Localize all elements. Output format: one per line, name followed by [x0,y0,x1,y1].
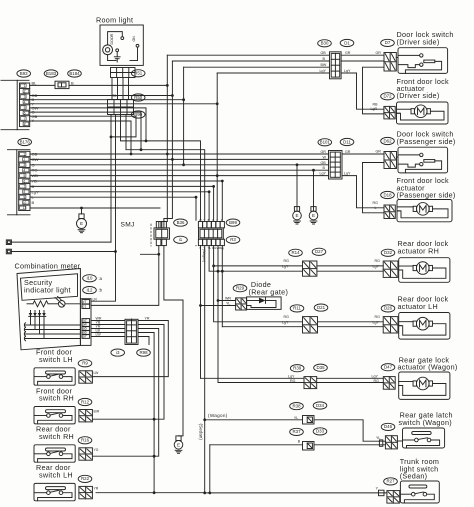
svg-text:RG: RG [374,379,380,383]
connector label D7 [381,39,395,46]
svg-text:LgY: LgY [320,69,327,73]
junction w6 [221,180,224,183]
wire LgY R11 to D26 [318,326,384,328]
svg-text:switch (Wagon): switch (Wagon) [399,418,452,427]
svg-text:R29: R29 [236,286,245,291]
svg-text:GR: GR [345,150,351,154]
connector label D62 [381,137,395,144]
connector label R22 [78,475,92,482]
connector R22 [79,486,93,498]
meter internal diodes [29,311,46,339]
wire LgY to rear RH R14 lower [209,246,302,272]
svg-text:R11: R11 [293,306,301,311]
wire R98 to front door switch RH R12 [93,325,165,420]
connector label D1 [340,39,354,46]
svg-text:(Wagon): (Wagon) [208,413,228,418]
connector label D32 [381,249,395,256]
svg-text:D35: D35 [316,365,325,370]
svg-text:GR: GR [376,150,382,154]
wire LR down to combination meter c7 [91,252,115,302]
connector label R3 [226,236,240,243]
svg-text:RG: RG [375,315,381,319]
svg-text:R38: R38 [292,403,301,408]
svg-text:5: 5 [23,174,25,178]
left edge connector b [6,249,11,254]
wire LgY R14 to D32 [317,270,383,272]
connector label R37 [290,428,304,435]
svg-text:R14: R14 [291,250,300,255]
switch box R16 [34,445,75,462]
wire GR D11 to D62 [342,153,384,155]
svg-text:WR: WR [225,296,231,300]
connector R39/D35 [304,377,317,389]
connector R3 pin labels [199,246,224,250]
connector label R14 [289,249,303,256]
junction w7 [212,185,215,188]
wire RG to rear gate actuator lower [218,301,304,383]
wire stem ground left [81,208,83,214]
inline marker bottom wire [379,490,385,496]
svg-text:3: 3 [24,95,26,99]
svg-text:RB: RB [112,94,116,98]
connector label i10 [83,275,97,282]
switch box R12 [34,407,75,424]
svg-text:R3: R3 [230,237,236,242]
wire vertical v167 to B36 [159,55,168,228]
wire LW meter to i3/R98 [91,336,125,338]
wire GB B93 p2 to vertical v172 [30,95,173,97]
connector R51 [111,68,136,78]
svg-text:RG: RG [375,259,381,263]
wire L D62 down to D18 [363,163,385,213]
svg-text:(Driver side): (Driver side) [397,91,440,100]
svg-text:D11: D11 [343,139,351,144]
rear gate latch switch box [403,428,445,448]
ground E center 1 [293,207,302,224]
rear gate lock actuator box [399,372,450,399]
svg-text:B: B [208,218,210,222]
wire RG to rear LH R11 [214,246,303,322]
svg-text:B: B [32,200,35,205]
connector R37/D33 [303,442,315,451]
svg-text:B: B [71,80,74,85]
wire RG to rear RH R14 [214,265,303,267]
connector label i3 [111,349,125,356]
svg-text:D47: D47 [384,365,393,370]
svg-text:(Rear gate): (Rear gate) [249,288,289,297]
connector D72 [384,106,395,119]
stub [195,245,197,247]
svg-text:Y: Y [203,218,205,222]
svg-text:LgY: LgY [288,374,295,378]
junction w9 [195,196,198,199]
wire LgY B93 to vertical [30,103,218,105]
wire LB meter to i3/R98 [91,332,125,334]
wire YL R38 to D46 [314,420,385,441]
wire i1 stub left [141,253,159,255]
svg-text:B176: B176 [20,139,31,144]
connector B99/R3 [199,228,224,239]
connector R16 [79,448,93,460]
wire WR R3 down to diode [218,246,236,301]
wire vertical v184 to bus [183,67,185,165]
wire LgY to B30 pin4 [217,72,329,74]
svg-text:i10: i10 [87,276,93,281]
connector label R50 [131,94,145,101]
connector B99 pin labels [199,218,223,222]
front door lock actuator box driver [397,102,449,124]
svg-text:GR: GR [376,51,382,55]
junction [217,270,220,273]
connector R38/D34 [303,416,315,425]
svg-text:D62: D62 [383,138,392,143]
svg-text:(Wagon): (Wagon) [202,249,206,262]
svg-text:DOOR: DOOR [110,33,114,44]
meter internal lamp lines [24,323,80,341]
connector R9 [79,371,93,383]
junction [171,94,174,97]
junction [153,491,156,494]
svg-text:indicator light: indicator light [24,285,71,294]
connector D46 [385,436,397,449]
svg-text:6: 6 [23,179,25,183]
svg-text:D21: D21 [317,305,326,310]
wires room light R51 to R50 [111,78,113,100]
connector label D33 [313,428,327,435]
svg-text:YR: YR [94,487,99,491]
connector label B183 [44,70,58,77]
wire BL B93 pin1 to inline connector [30,84,55,86]
SMJ boundary dashes [150,224,152,246]
wire B R37 to D46 [314,444,385,446]
connector label D47 [381,364,395,371]
wire B i1 down to ground E [164,246,183,436]
wire YL to diode [201,305,236,307]
wire B93 p5 down to bus H1 [30,108,146,141]
svg-text:B99: B99 [229,220,237,225]
svg-text:R98: R98 [139,350,148,355]
wire bottom bus to Sedan vertical [154,492,205,494]
wire B176 p8 to B99 [30,192,209,221]
svg-text:RG: RG [373,201,379,205]
wire LgR D1 down to D72 [341,73,384,109]
svg-text:11: 11 [23,206,27,210]
connector label B101 [318,139,332,146]
connector label R16 [78,437,92,444]
svg-text:D32: D32 [384,250,393,255]
connector D7 [384,53,396,72]
connector label R51 [131,70,145,77]
connector B30/D1 [330,52,342,79]
connector label B36 [174,219,188,226]
svg-text:BL: BL [32,80,38,85]
svg-text:D1: D1 [344,40,350,45]
connector R50/B90 [108,100,134,115]
wire bus B176 p2 to B101 [30,158,329,160]
wire D62 to switch box [397,156,399,158]
connector label R11 [290,305,304,312]
wire LW R98 to front door switch LH R9 [93,321,169,377]
junction [203,492,206,495]
svg-text:LgY: LgY [282,321,289,325]
wire D46 to latch switch box [397,440,402,442]
junction [110,136,113,139]
wire to B30 pin1 [167,54,329,56]
svg-text:switch LH: switch LH [39,355,73,364]
svg-text:W: W [199,218,202,222]
connector B93 pins [20,83,30,127]
rear door lock actuator LH box [399,313,450,340]
wire RG R11 to D26 [318,321,384,323]
svg-text:YL: YL [226,302,230,306]
wire B bus B176 p4 to B101 [30,169,329,171]
wire LgY bus B176 p5 to B101 [30,175,329,177]
svg-text:L: L [375,206,377,210]
junction [153,418,156,421]
wire R98 to rear door switch LH R22 and trunk [96,333,154,493]
rear door lock actuator RH box [399,258,450,283]
svg-text:7: 7 [23,185,25,189]
switch box R9 [34,368,75,385]
connector label R39 [290,365,304,372]
junction [153,455,156,458]
svg-text:RG: RG [284,315,290,319]
connector label D34 [313,402,327,409]
connector D18 [384,205,395,219]
svg-text:R37: R37 [292,429,301,434]
connector label R12 [78,398,92,405]
connector label D21 [314,304,328,311]
connector label D72 [381,93,395,100]
svg-text:1: 1 [24,84,26,88]
connector B176 pins [19,151,30,210]
wire YL Wagon to R38/D34 [205,419,303,421]
junction [221,270,224,273]
wire D7 to switch box [396,57,398,59]
junction [203,418,206,421]
trunk room light switch box [400,481,439,503]
connector strip cells [80,299,91,346]
svg-text:LgY: LgY [320,172,327,176]
junction [212,265,215,268]
wire joint [221,326,223,328]
diode box [247,297,282,310]
connector B93 bracket [1,80,29,129]
junction [166,84,169,87]
wire RG D11 down to D18 [342,176,384,208]
junction w8 [208,190,211,193]
wire WR meter to i3/R98 [91,320,125,322]
svg-text:BrR: BrR [94,410,100,414]
svg-text:8: 8 [23,190,25,194]
svg-text:D46: D46 [384,424,393,429]
svg-text:B184: B184 [69,71,80,76]
ground E center 2 [309,207,318,224]
svg-text:G: G [212,218,214,222]
svg-text:actuator (Wagon): actuator (Wagon) [398,363,458,372]
wire bus H1 to B99 [121,115,201,221]
svg-text:i1: i1 [179,237,183,242]
junction [182,163,185,166]
svg-text:4: 4 [23,169,25,173]
connector label R9 [78,360,92,367]
connector R27 [387,491,400,504]
svg-text:LW: LW [94,371,100,375]
svg-text:W: W [323,155,327,159]
svg-text:RB: RB [373,102,379,106]
connector label D11 [340,138,354,145]
wire LgY R39 to D47 [317,377,384,379]
junction [166,153,169,156]
wire B93 p7 left hook [30,116,136,137]
front door lock actuator box passenger [397,200,452,222]
connector R14/D27 [303,261,317,276]
wire left edge b [11,251,115,253]
svg-text:actuator LH: actuator LH [398,302,438,311]
svg-text:LR: LR [93,298,98,302]
connector label B90 [131,111,145,118]
svg-text:c1: c1 [83,305,87,309]
svg-text:6: 6 [24,111,26,115]
svg-text:switch RH: switch RH [39,394,74,403]
wire YB meter to i3/R98 [91,324,125,326]
connector label B184 [68,70,82,77]
room light box [100,25,143,65]
svg-text:D18: D18 [383,192,392,197]
junction [80,207,83,210]
connector label B99 [226,219,240,226]
connector label R98 [137,349,151,356]
svg-text:D34: D34 [316,403,325,408]
wire Y Sedan down to trunk switch R27 [205,246,387,493]
wire B176 p9 down [30,197,196,220]
wire vertical v172 to B36 [164,61,173,228]
svg-text:(Passenger side): (Passenger side) [397,137,456,146]
svg-text:D26: D26 [384,306,393,311]
svg-text:YG: YG [94,448,99,452]
svg-text:D72: D72 [383,94,392,99]
svg-text:R16: R16 [81,438,90,443]
junction [312,169,315,172]
svg-text:BW: BW [321,63,327,67]
wire B to R37/D33 [210,444,303,446]
wire R98 short stub [138,337,149,345]
svg-text:D27: D27 [315,249,324,254]
junction [140,148,143,151]
switch box R22 [34,483,75,500]
wire GR D1 to D7 [341,54,384,56]
connector label B176 [18,138,32,145]
svg-text:LgY: LgY [373,321,380,325]
svg-text:2: 2 [24,90,26,94]
junction [199,304,202,307]
connector label i1 [174,236,188,243]
wire B176 p6 to B99 [30,181,222,220]
svg-text:10: 10 [22,201,26,205]
wire B176 p7 to B99 [30,186,214,220]
svg-text:7: 7 [24,117,26,121]
combination meter outline [17,269,80,350]
svg-text:LW: LW [96,333,102,337]
svg-text:GB: GB [321,51,327,55]
connector label R27 [384,478,398,485]
junction [130,153,133,156]
connector label R38 [290,403,304,410]
svg-text:GR: GR [345,51,351,55]
svg-text:Y: Y [32,118,35,123]
wire B B93 to vertical v167 [69,84,167,86]
connector D26 [383,317,398,333]
svg-text:5: 5 [24,106,26,110]
door lock switch box driver [398,48,448,74]
wire RG R14 to D32 [317,265,383,267]
wire to B30 pin2 [172,60,329,62]
svg-text:LgY: LgY [344,172,351,176]
svg-text:LgY: LgY [282,265,289,269]
wire LgY to rear LH R11 lower [222,246,302,327]
junction [216,174,219,177]
svg-text:RG: RG [290,379,296,383]
security indicator light inner box [21,274,78,301]
svg-text:GB: GB [321,161,327,165]
connector B176 bracket [8,150,31,215]
wire B93 p3 to vertical v184 [30,99,184,101]
connector B101/D11 [329,151,343,180]
svg-text:8: 8 [24,122,26,126]
svg-text:2: 2 [23,158,25,162]
svg-text:RG: RG [284,259,290,263]
svg-text:LgR: LgR [371,107,378,111]
svg-text:R51: R51 [134,71,143,76]
junction [114,250,117,253]
svg-text:4: 4 [24,101,26,105]
connector D32 [383,261,398,277]
svg-text:B183: B183 [46,71,57,76]
svg-text:(Sedan): (Sedan) [400,472,428,481]
svg-text:i12: i12 [87,287,93,292]
svg-text:R27: R27 [386,479,395,484]
wire to B30 pin3 [184,66,330,68]
svg-text:B36: B36 [177,220,185,225]
svg-text:actuator RH: actuator RH [398,246,440,255]
wire GB down to ground E [296,165,298,211]
connector label D18 [381,191,395,198]
connector R3 bottom pins [198,239,224,245]
wire room light down to edge wire b [115,115,117,252]
svg-text:ON: ON [132,36,136,42]
connector R11/D21 [303,317,318,333]
svg-text:Room light: Room light [96,16,133,25]
wire LgY to rear gate actuator [201,246,305,379]
svg-text:R22: R22 [81,476,90,481]
svg-text:R39: R39 [293,366,302,371]
room light lamp [103,32,123,61]
svg-text:LgY: LgY [344,69,351,73]
svg-text:R: R [221,218,223,222]
svg-text:(Driver side): (Driver side) [397,37,440,46]
svg-text:R12: R12 [81,399,90,404]
connector label B93 [17,70,31,77]
svg-text:B93: B93 [20,71,28,76]
connector label i12 [83,287,97,294]
junction [182,98,185,101]
security indicator resistor and LED [27,297,80,308]
svg-text:LgY: LgY [372,374,379,378]
svg-text:switch RH: switch RH [39,432,74,441]
connector R12 [79,410,93,422]
svg-text:(Sedan): (Sedan) [199,424,204,441]
wire B93 p8 down to bus w1 [30,121,131,154]
